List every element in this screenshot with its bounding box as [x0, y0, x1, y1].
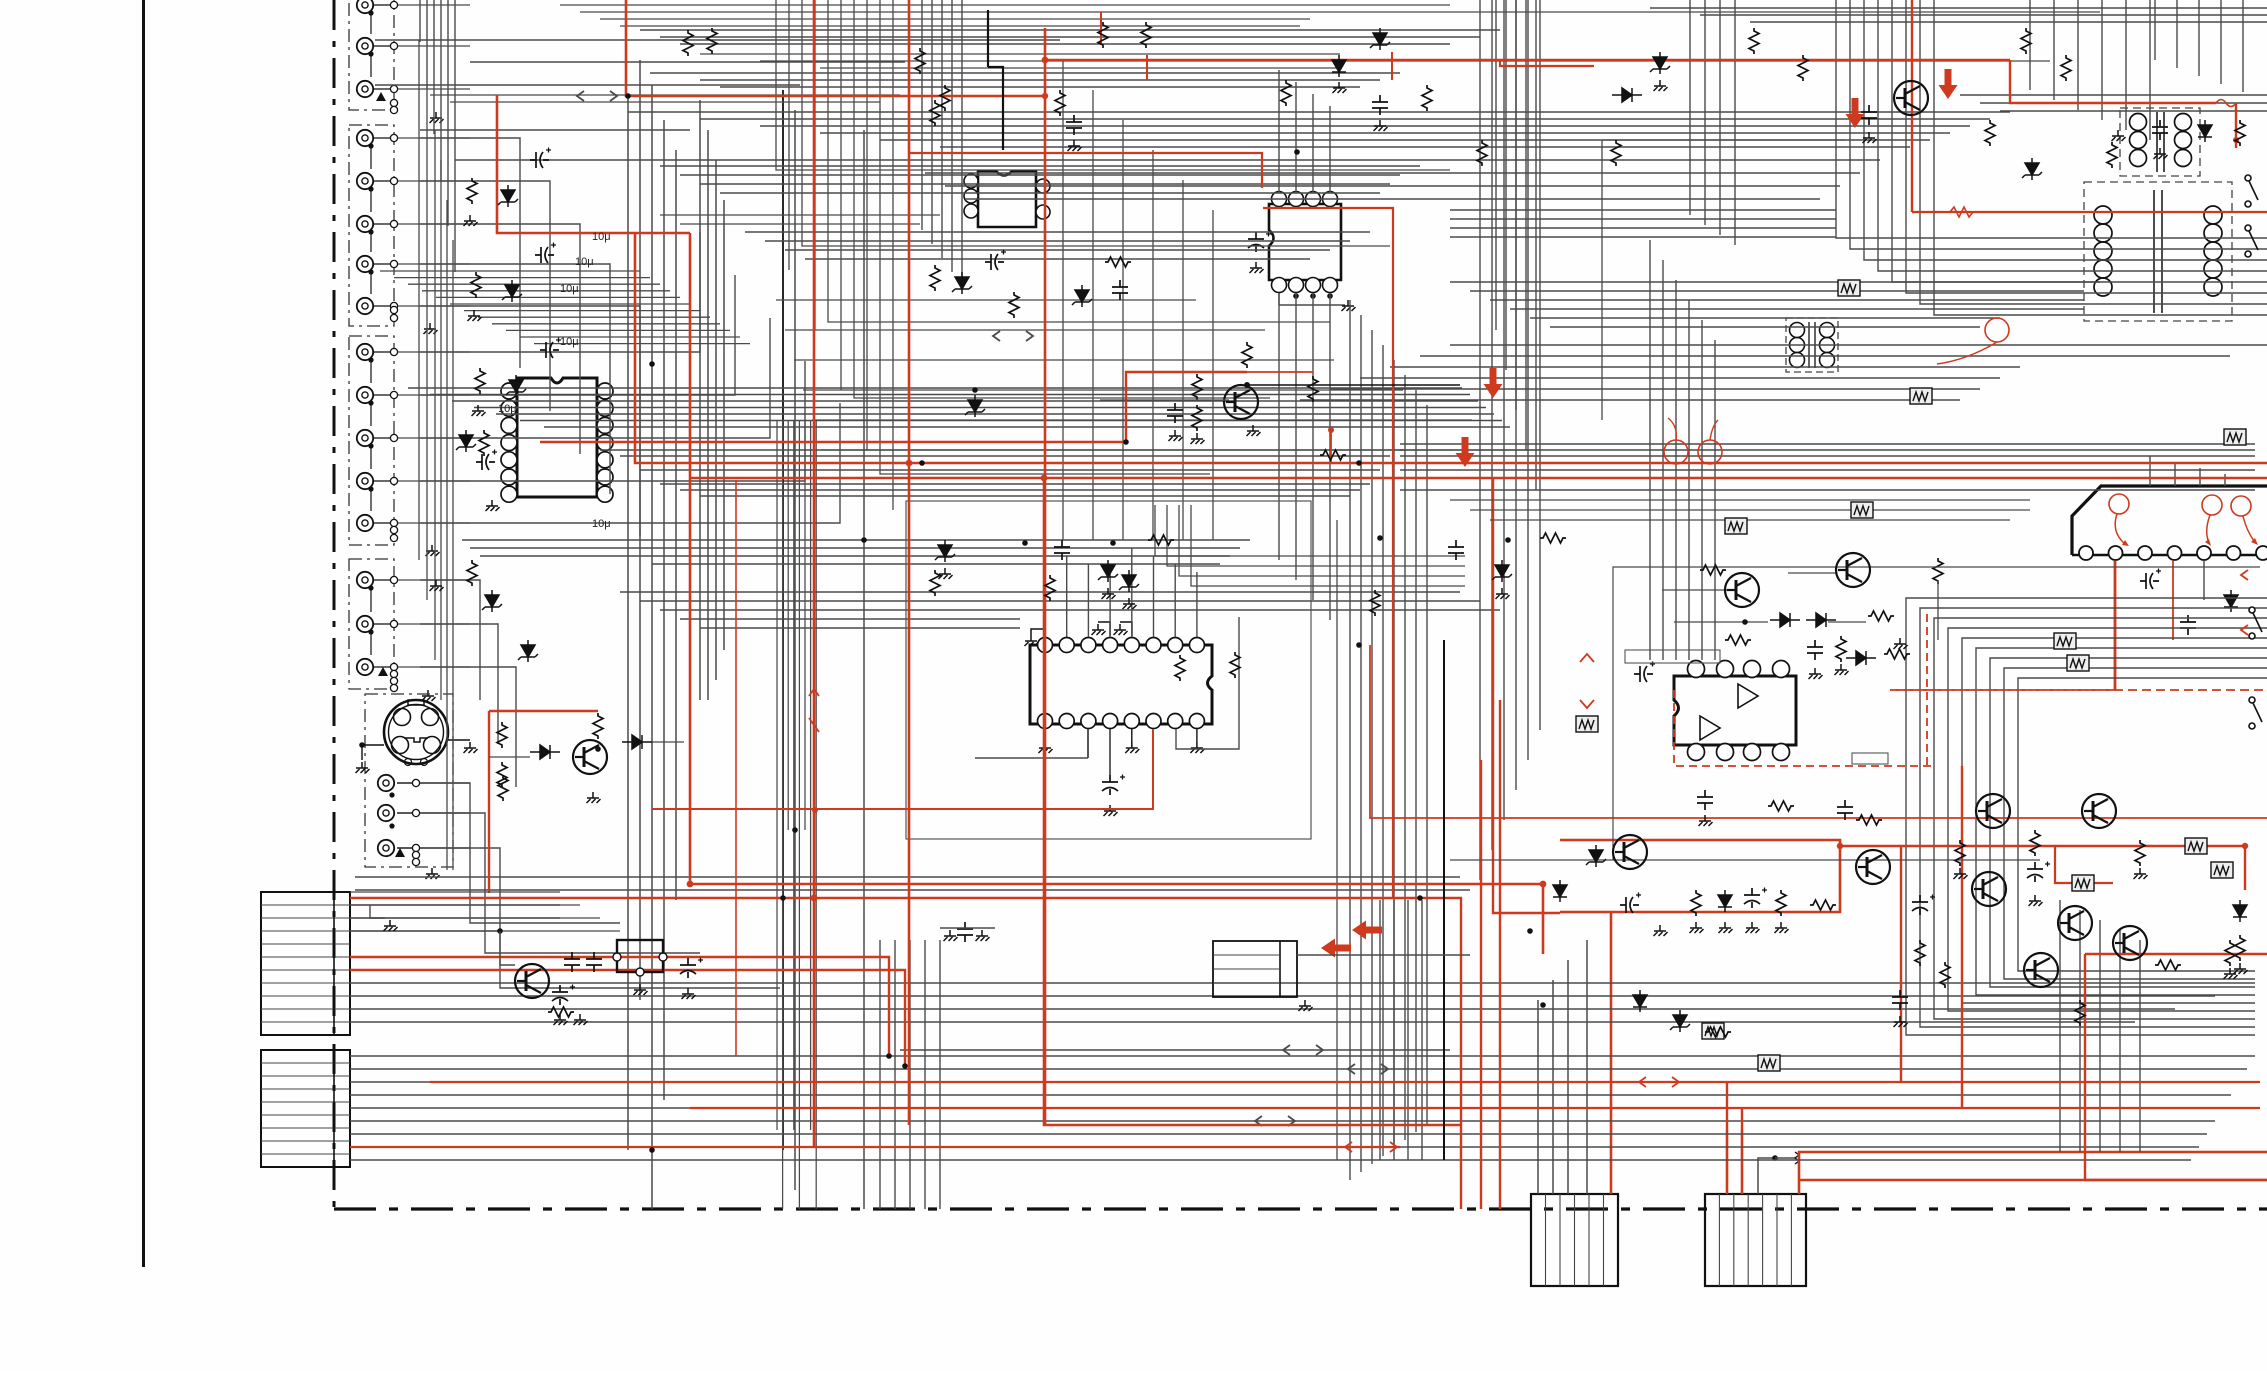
- wire: [2139, 940, 2141, 1152]
- wire: [394, 277, 650, 279]
- capacitor: [1861, 105, 1877, 125]
- ground: [1092, 624, 1106, 635]
- jack pin: [390, 302, 397, 309]
- capacitor: [2152, 120, 2168, 140]
- transistor Q13: [2024, 953, 2058, 987]
- wire: [1450, 499, 2030, 501]
- block B row: [261, 1088, 350, 1090]
- pin: [390, 99, 397, 106]
- wire: [373, 263, 390, 265]
- red stub down: [1330, 428, 1332, 463]
- resistor: [1477, 140, 1487, 166]
- wire: [804, 420, 806, 830]
- zener diode: [518, 640, 538, 662]
- U4 pin top: [1124, 638, 1139, 653]
- U1 pin right: [597, 486, 613, 502]
- ground: [464, 215, 478, 226]
- resistor: [497, 722, 507, 748]
- connector (right, multi-pin): [2072, 486, 2267, 555]
- resistor: [467, 560, 477, 586]
- jack pin: [390, 177, 397, 184]
- wire: [1393, 360, 1395, 1148]
- U4 pin bottom: [1103, 714, 1118, 729]
- wire: [373, 305, 390, 307]
- junction: [625, 93, 631, 99]
- zener: [2022, 158, 2042, 180]
- zener diode: [498, 185, 518, 207]
- wire: [1688, 300, 1690, 660]
- ground: [2154, 148, 2168, 159]
- ground: [1894, 1016, 1908, 1027]
- transformer T3: [1786, 318, 1838, 372]
- RCA jack group2: [357, 173, 373, 189]
- svg-text:10μ: 10μ: [592, 518, 611, 530]
- wire: [1330, 388, 1980, 390]
- resistor: [1700, 565, 1726, 575]
- wire: [1892, 0, 2267, 282]
- wire: [793, 420, 795, 1130]
- wire: [1788, 572, 1836, 574]
- block A row: [261, 943, 350, 945]
- pin: [412, 844, 419, 851]
- resistor: [1230, 652, 1240, 678]
- wire: [1662, 260, 1664, 660]
- red wire: [489, 710, 598, 712]
- wire: [1450, 227, 1836, 229]
- wire: [1503, 0, 1505, 820]
- ground: [468, 310, 482, 321]
- wire: [1515, 0, 1517, 410]
- wire: [700, 118, 1990, 120]
- switch: [2249, 607, 2262, 639]
- wire: [866, 0, 868, 450]
- red thin vertical x736: [735, 480, 737, 1056]
- ground: [1190, 742, 1204, 753]
- ground: [1039, 742, 1053, 753]
- wire: [700, 53, 1340, 55]
- U5 pin top: [1773, 661, 1790, 678]
- diode: [1553, 880, 1567, 902]
- resistor: [1192, 405, 1202, 431]
- wire: [355, 876, 1460, 878]
- resistor: [2075, 1000, 2085, 1026]
- wire: [420, 782, 470, 784]
- wire: [440, 0, 442, 180]
- wire: [370, 13, 372, 34]
- wire: [398, 666, 470, 668]
- red riser x1493: [1493, 478, 1560, 913]
- red arrow: [1846, 98, 1865, 128]
- wire: [446, 200, 448, 870]
- resistor: [2155, 960, 2181, 970]
- capacitor at U3: [1248, 232, 1264, 252]
- resistor: [1281, 80, 1291, 106]
- pin: [412, 858, 419, 865]
- wire: [2099, 920, 2101, 1152]
- diode: [2198, 120, 2212, 142]
- wire: [419, 0, 421, 42]
- RCA jack group2: [357, 298, 373, 314]
- wire: [350, 982, 2255, 984]
- wire: [828, 0, 1330, 322]
- wire: [2176, 0, 2178, 68]
- red wire to block1: [1610, 912, 1613, 1194]
- wire: [398, 351, 470, 353]
- wire: [802, 0, 1390, 246]
- wire: [2079, 910, 2081, 1152]
- wire: [450, 101, 880, 103]
- junction: [1123, 439, 1129, 445]
- red bus y1180: [1799, 1179, 2267, 1182]
- resistor: [497, 762, 507, 788]
- diode: [1770, 613, 1800, 627]
- T2 coil: [2094, 278, 2112, 296]
- wire: [812, 419, 1472, 421]
- transistor Q3: [515, 964, 549, 998]
- U4 pin wire: [1044, 729, 1046, 742]
- connector pin: [2079, 546, 2093, 560]
- U4 pin top: [1103, 638, 1118, 653]
- block2 divider: [1733, 1194, 1735, 1286]
- resistor: [1725, 635, 1751, 645]
- wire: [900, 1049, 1450, 1051]
- wire: [651, 85, 653, 1209]
- red wire thin2: [1247, 371, 1313, 373]
- block2 divider: [1790, 1194, 1792, 1286]
- wire: [1470, 290, 2084, 292]
- label box: [1852, 753, 1888, 764]
- wire: [1400, 469, 2255, 471]
- wire: [375, 39, 1060, 41]
- connector pin: [2138, 546, 2152, 560]
- IC U2: [978, 171, 1036, 227]
- svg-text:10μ: 10μ: [560, 336, 579, 348]
- wire: [1490, 519, 2010, 521]
- resistor: [1915, 940, 1925, 966]
- wire: [961, 0, 963, 286]
- switch: [2249, 697, 2262, 729]
- wire: [474, 407, 1486, 409]
- wire: [350, 1133, 2207, 1135]
- ground: [384, 920, 398, 931]
- wire: [680, 223, 920, 225]
- wire: [448, 739, 470, 741]
- capacitor: [2027, 862, 2043, 882]
- wire: [1714, 340, 1716, 660]
- pin: [412, 779, 419, 786]
- block A row: [261, 969, 350, 971]
- wire: [1092, 90, 1094, 540]
- U1 pin left: [501, 486, 517, 502]
- diode: [530, 745, 560, 759]
- wire: [2220, 0, 2222, 84]
- U1 pin right: [597, 469, 613, 485]
- DIN pin: [424, 737, 441, 754]
- ground: [1342, 300, 1356, 311]
- wire to U4: [1196, 572, 1198, 637]
- ground: [1775, 922, 1789, 933]
- RCA jack group2: [357, 256, 373, 272]
- wire: [1415, 390, 1417, 1132]
- wire: [434, 130, 436, 660]
- ground: [426, 545, 440, 556]
- wire: [408, 283, 660, 285]
- wire: [420, 129, 690, 131]
- capacitor: [1912, 895, 1928, 915]
- wire: [420, 783, 620, 923]
- wire: [787, 420, 789, 830]
- U5 pin top: [1688, 661, 1705, 678]
- wire: [420, 403, 840, 523]
- wire: [470, 547, 1240, 549]
- T3 coil: [1790, 353, 1805, 368]
- RCA jack group1: [357, 38, 373, 54]
- resistor: [1836, 636, 1846, 662]
- wire: [794, 359, 1334, 361]
- capacitor: [564, 952, 580, 972]
- wire: [398, 394, 470, 396]
- wire: [720, 86, 1360, 88]
- resistor (boxed): [2224, 429, 2246, 445]
- wire to U4: [1066, 556, 1068, 637]
- resistor: [1940, 962, 1950, 988]
- wire: [373, 437, 390, 439]
- U1 pin right: [597, 452, 613, 468]
- red junction: [1328, 427, 1334, 433]
- red circle marker: [1985, 318, 2009, 342]
- jack pin: [390, 477, 397, 484]
- wire: [1701, 320, 1703, 660]
- DIN pin: [394, 709, 411, 726]
- wire: [373, 480, 390, 482]
- resistor: [1055, 90, 1065, 116]
- resistor: [498, 775, 508, 801]
- wire: [745, 231, 1370, 233]
- U1 pin left: [501, 469, 517, 485]
- red wire from block A: [350, 970, 905, 1066]
- red arrow: [1352, 921, 1382, 940]
- wire: [925, 172, 1860, 174]
- jack pin: [390, 576, 397, 583]
- wire: [782, 420, 784, 1209]
- wire: [951, 0, 953, 272]
- capacitor: [1697, 790, 1713, 810]
- RCA jack group3: [357, 344, 373, 360]
- capacitor (pol): [530, 152, 549, 168]
- wire to block1: [1567, 960, 1569, 1194]
- svg-text:10μ: 10μ: [498, 403, 517, 415]
- resistor: [683, 30, 693, 56]
- U4 pin top: [1059, 638, 1074, 653]
- wire: [1400, 443, 2255, 445]
- T2 coil: [2204, 278, 2222, 296]
- wire: [370, 446, 372, 469]
- wire: [420, 264, 610, 494]
- resistor (boxed): [2211, 862, 2233, 878]
- wire nest: [2004, 668, 2267, 979]
- red junction: [1540, 881, 1547, 888]
- T1 coil: [2130, 150, 2147, 167]
- wire: [2059, 900, 2061, 1152]
- ground: [1025, 635, 1039, 646]
- RCA jack group4: [357, 659, 373, 675]
- resistor (boxed): [2185, 838, 2207, 854]
- wire nest: [2018, 678, 2267, 971]
- zener: [965, 395, 985, 417]
- wire: [1450, 344, 2267, 346]
- wire: [2053, 0, 2055, 100]
- wire: [620, 591, 1460, 593]
- wire: [1450, 281, 2100, 283]
- diode: [1718, 890, 1732, 912]
- resistor: [1955, 840, 1965, 866]
- wire: [680, 43, 1450, 45]
- wire: [500, 931, 515, 965]
- red bottom bus: [690, 1107, 2260, 1109]
- wire: [506, 329, 730, 331]
- shield box group 4: [349, 559, 394, 689]
- wire: [1336, 520, 1338, 1160]
- capacitor: [957, 922, 973, 942]
- block B pin strip: [333, 1050, 335, 1167]
- connector bottom edge: [2072, 554, 2267, 557]
- zener diode: [506, 375, 526, 397]
- diode: [1633, 990, 1647, 1012]
- junction: [1527, 928, 1533, 934]
- diode: [1612, 88, 1642, 102]
- wire: [1400, 489, 2255, 491]
- line break: [1283, 1045, 1323, 1055]
- wire: [905, 159, 1880, 161]
- resistor: [1884, 649, 1910, 659]
- red arrow: [1321, 939, 1351, 958]
- wire: [350, 930, 500, 932]
- op-amp IC U5: [1674, 676, 1796, 745]
- RCA jack group2: [357, 130, 373, 146]
- block A pin strip: [333, 892, 335, 1035]
- ground: [430, 580, 444, 591]
- block B row: [261, 1075, 350, 1077]
- junction: [902, 1063, 908, 1069]
- wire: [373, 137, 390, 139]
- wire: [370, 632, 372, 655]
- resistor: [2235, 120, 2245, 146]
- wire: [1421, 900, 1423, 1160]
- zener: [1119, 570, 1139, 592]
- wire: [715, 160, 717, 680]
- red wire right: [2085, 954, 2267, 1180]
- resistor: [2021, 28, 2031, 54]
- resistor: [1320, 450, 1346, 460]
- connector pin: [2256, 546, 2267, 560]
- wire: [370, 360, 372, 383]
- transistor Q8: [2082, 794, 2116, 828]
- zener diode: [502, 280, 522, 302]
- wire: [398, 223, 470, 225]
- bottom connector block 2: [1705, 1194, 1806, 1286]
- wire: [362, 744, 384, 746]
- resistor: [475, 368, 485, 394]
- wire: [821, 449, 1541, 451]
- ground: [2134, 868, 2148, 879]
- U3 pin top: [1323, 192, 1338, 207]
- wire: [418, 40, 420, 560]
- capacitor (pol): [535, 247, 554, 263]
- line break: [577, 91, 617, 101]
- resistor: [1045, 575, 1055, 601]
- wire nest: [1155, 505, 1465, 556]
- resistor: [2107, 142, 2117, 168]
- wire: [880, 139, 1930, 141]
- wire (bold): [782, 90, 784, 1150]
- ground: [424, 323, 438, 334]
- red circle marker: [2231, 496, 2251, 516]
- wire: [373, 623, 390, 625]
- wire: [924, 940, 926, 1209]
- red bus y212: [1912, 211, 2267, 213]
- wire: [470, 61, 905, 63]
- U3 pin bottom: [1272, 278, 1287, 293]
- sub-circuit frame: [1613, 567, 2260, 660]
- diode: [1332, 55, 1346, 77]
- red vertical x1393: [1263, 208, 1393, 898]
- label box: [1625, 650, 1720, 663]
- red line break: [1580, 654, 1594, 708]
- wire: [628, 111, 2010, 113]
- red thin y818: [1370, 645, 2267, 818]
- U4 pin bottom: [1146, 714, 1161, 729]
- wire: [2154, 0, 2156, 60]
- wire: [520, 420, 1502, 422]
- ground: [1114, 624, 1128, 635]
- wire: [1505, 0, 1507, 370]
- wire: [1980, 102, 2267, 104]
- wire: [680, 618, 1020, 620]
- wire: [1297, 954, 1470, 956]
- wire to block1: [1537, 1000, 1539, 1194]
- U4 pin bottom: [1059, 714, 1074, 729]
- wire: [350, 1055, 2255, 1057]
- resistor (boxed): [1758, 1055, 1780, 1071]
- wire to U4: [1174, 564, 1176, 637]
- wire: [1539, 0, 1541, 730]
- capacitor: [476, 454, 495, 470]
- wire from U3: [1329, 293, 1331, 620]
- U3 pin bottom: [1306, 278, 1321, 293]
- capacitor: [2140, 573, 2159, 589]
- op-amp symbol: [1700, 716, 1720, 740]
- wire: [1704, 0, 1706, 225]
- U4 pin bottom: [1168, 714, 1183, 729]
- junction: [1356, 642, 1362, 648]
- svg-text:10μ: 10μ: [575, 256, 594, 268]
- wire: [600, 449, 1404, 451]
- wire from U3 top: [1295, 82, 1297, 192]
- ground: [1654, 925, 1668, 936]
- red vertical x814: [813, 0, 816, 1147]
- wire nest: [1962, 638, 2267, 1003]
- wire nest: [1934, 618, 2267, 1019]
- zener diode: [456, 430, 476, 452]
- T1 coil: [2130, 132, 2147, 149]
- wire: [370, 54, 372, 77]
- wire: [700, 627, 1020, 629]
- wire: [1700, 14, 2267, 16]
- junction: [1294, 149, 1300, 155]
- T3 coil: [1790, 338, 1805, 353]
- red circle marker: [2109, 494, 2129, 514]
- wire: [1300, 399, 1960, 401]
